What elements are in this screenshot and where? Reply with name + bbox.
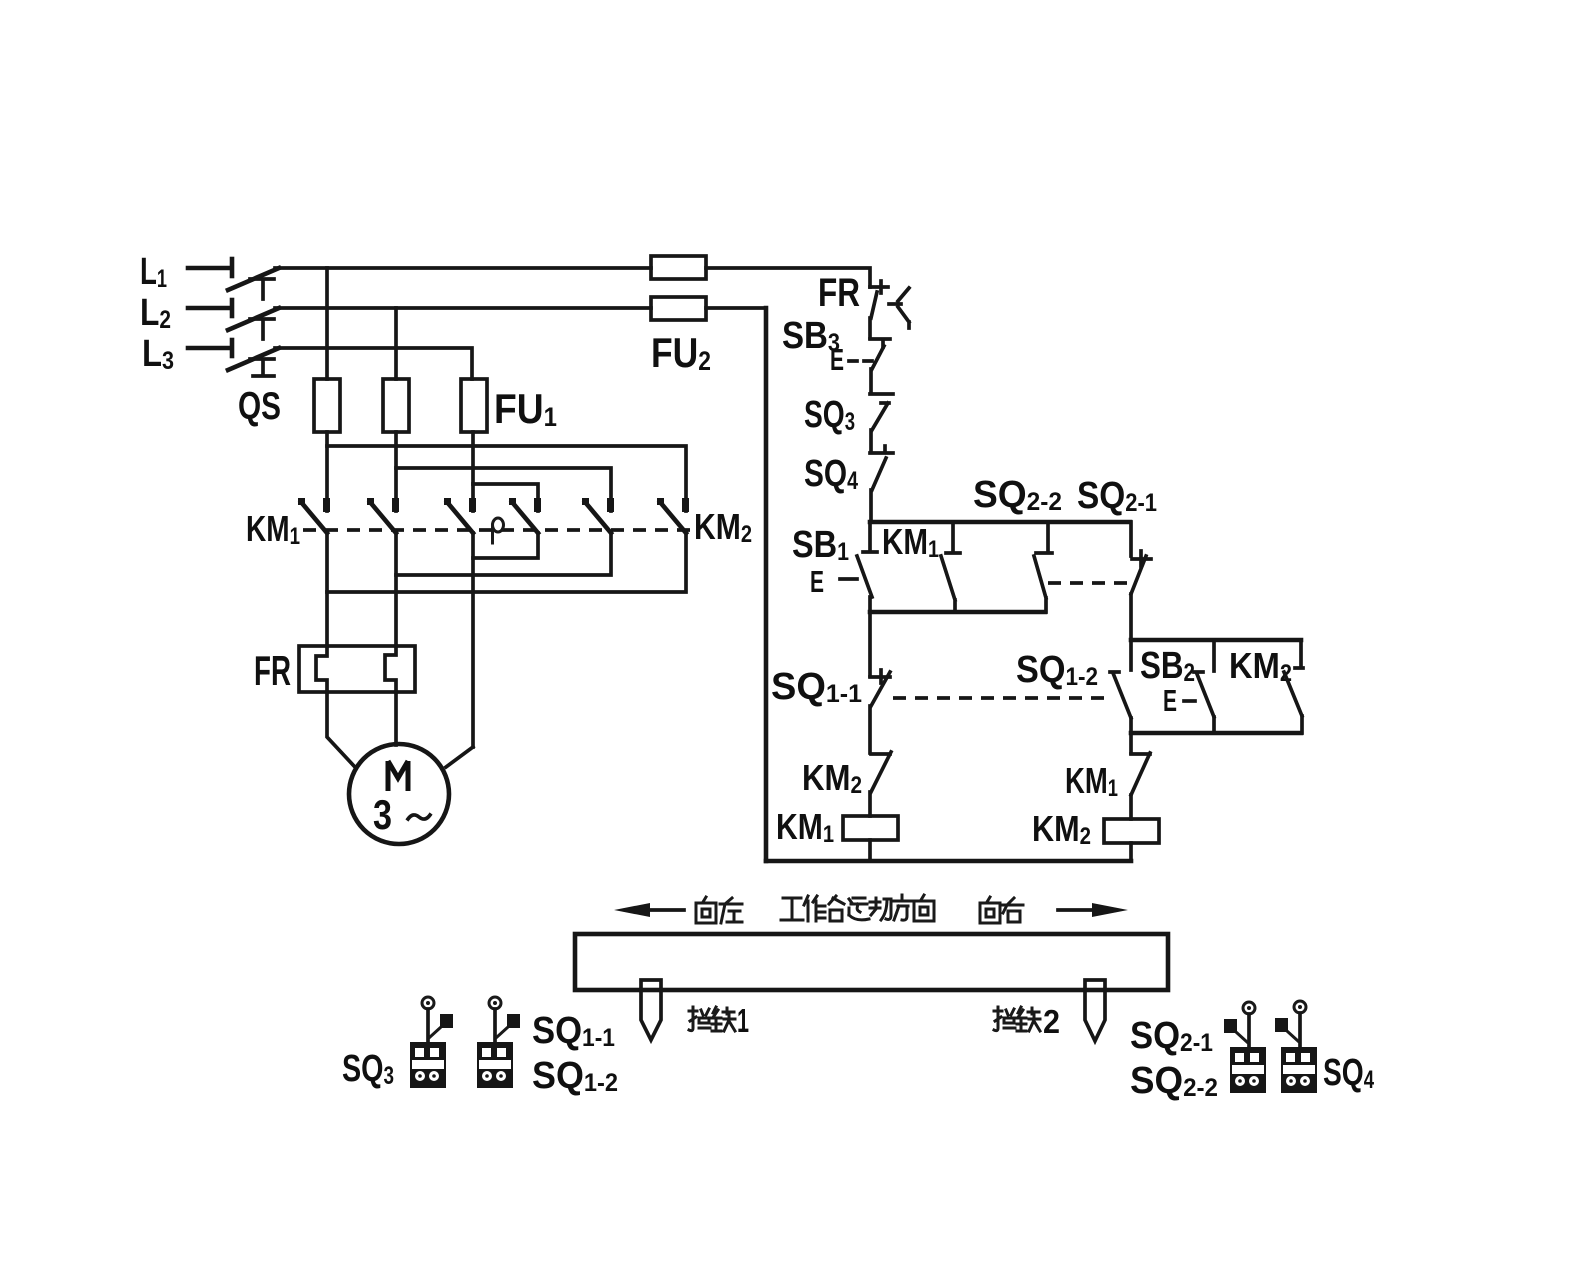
wire pole3 bottom down — [471, 533, 475, 747]
coil KM1 — [843, 816, 898, 840]
switch QS blade pole 2 — [228, 308, 279, 330]
wire phase C fuse to node C1 — [471, 432, 475, 511]
switch QS blade pole 3 — [228, 348, 279, 370]
text xiang-zuo (to left) — [696, 897, 742, 923]
wire L3 to fuse FU1c — [275, 348, 472, 379]
contact KM2 NC interlock — [871, 752, 891, 792]
wire SQ4 to node A — [869, 490, 873, 522]
limit switch icon SQ3 — [410, 997, 453, 1088]
wire pole1 bottom down — [325, 533, 329, 646]
wire pole2 bottom down — [394, 533, 398, 646]
wire phase B fuse to node B1 — [394, 432, 398, 511]
wire L2 lead-in — [188, 306, 231, 311]
svg-text:1: 1 — [737, 1002, 749, 1039]
wire phase B down to FU1 — [394, 308, 398, 379]
coil KM2 — [1104, 819, 1159, 843]
text worktable motion direction — [781, 895, 934, 921]
linkage mark p — [493, 518, 504, 543]
arrow to-left — [614, 903, 684, 917]
pushbutton SB3 NC — [870, 339, 890, 369]
QS linkage bar pole 2 — [250, 319, 274, 339]
pushbutton SB2 NO — [1194, 640, 1214, 733]
fuse FU1 element b — [383, 379, 409, 432]
limit switch SQ1-2 NO — [1110, 640, 1131, 733]
terminal tick L2 — [230, 300, 235, 316]
FR heater element phase B — [385, 646, 396, 692]
QS linkage bar pole 3 with handle — [250, 359, 274, 376]
wire L3 lead-in — [188, 346, 231, 351]
limit switch SQ2-1 NC — [1131, 522, 1151, 594]
wire L2 to FU2 — [275, 306, 651, 310]
terminal tick L3 — [230, 340, 235, 356]
limit switch icon SQ2 — [1224, 1002, 1266, 1093]
wire L1 to FU2 — [275, 266, 651, 270]
wire branch node A top — [870, 520, 1130, 525]
dog 2 (stop iron 2) — [1085, 980, 1105, 1041]
svg-text:E: E — [830, 342, 844, 377]
FR thermal NC contact — [870, 281, 909, 328]
wire phase A down to FU1 — [325, 268, 329, 379]
wire phase A fuse to node A1 — [325, 432, 329, 511]
wire FR to motor phase A — [327, 692, 354, 766]
wire KM2 interlock to coil KM1 — [868, 792, 872, 816]
wire coil KM1 to bottom rail — [868, 840, 872, 861]
KM1 main contact pole 2 — [367, 498, 399, 533]
linkage dash SB1 — [840, 577, 857, 581]
dog 1 (stop iron 1) — [641, 980, 661, 1040]
QS linkage bar pole 1 — [250, 279, 274, 299]
wire SB3 to SQ3 — [869, 369, 873, 393]
wire tie pole1-pole6 outputs — [327, 533, 686, 592]
wire tie pole2-pole5 outputs — [396, 533, 611, 575]
contact KM1 NC interlock right — [1131, 753, 1150, 795]
linkage dashes SQ1-1 to SQ1-2 — [893, 696, 1108, 700]
terminal tick L1 — [230, 259, 235, 276]
text xiang-you (to right) — [980, 897, 1023, 923]
wire bottom rail — [766, 859, 1131, 864]
motor M circle — [349, 744, 449, 844]
wire FR to SB3 — [868, 318, 872, 338]
switch QS blade pole 1 — [228, 268, 279, 290]
svg-text:E: E — [810, 564, 824, 599]
linkage dash SB2 — [1184, 699, 1195, 703]
arrow to-right — [1058, 903, 1128, 917]
contact KM2 selfhold NO — [1284, 640, 1303, 733]
wire crossover B to KM2 pole 5 — [396, 468, 611, 511]
fuse FU2 element 1 — [651, 256, 706, 279]
fuse FU2 element 2 — [651, 297, 706, 320]
svg-text:E: E — [1163, 683, 1177, 718]
wire branch node B lower — [870, 610, 1045, 615]
svg-text:FR: FR — [818, 271, 860, 315]
wire L1 lead-in — [188, 266, 231, 271]
fuse FU1 element c — [461, 379, 487, 432]
FR heater element phase A — [316, 646, 327, 692]
wire crossover C to KM2 pole 4 — [473, 484, 538, 511]
KM2 main contact pole 5 — [582, 498, 614, 533]
wire crossover A to KM2 pole 6 — [327, 446, 686, 511]
KM2 main contact pole 6 — [657, 498, 689, 533]
parallel box top line — [1131, 638, 1301, 643]
KM1 main contact pole 3 — [444, 498, 476, 533]
wire KM1 interlock to coil KM2 — [1129, 795, 1133, 819]
limit switch icon SQ1 — [477, 997, 520, 1088]
wire coil KM2 to bottom rail — [1129, 843, 1133, 861]
contact KM1 selfhold NO — [941, 523, 960, 612]
wire SQ3 to SQ4 — [869, 430, 873, 452]
KM2 main contact pole 4 — [509, 498, 541, 533]
worktable body — [575, 934, 1168, 990]
limit switch SQ1-1 NC — [870, 670, 890, 706]
limit switch SQ4 NC — [870, 446, 893, 490]
svg-text:3: 3 — [373, 791, 392, 838]
wire L2 phase to left rail corner — [706, 306, 766, 310]
linkage dash SB3 — [849, 359, 872, 363]
wire SB1 to SQ1-1 — [868, 597, 872, 676]
svg-text:QS: QS — [238, 385, 281, 428]
limit switch icon SQ4 — [1275, 1001, 1317, 1093]
wire to motor phase C — [446, 747, 473, 767]
KM1 main contact pole 1 — [298, 498, 330, 533]
wire L1 phase to control corner — [706, 268, 870, 287]
linkage dashes SQ2-2 to SQ2-1 — [1048, 581, 1130, 585]
wire box to KM1 interlock right — [1129, 733, 1133, 753]
svg-text:FR: FR — [254, 647, 291, 694]
motor label ~ — [408, 815, 430, 819]
parallel box bottom line — [1131, 731, 1301, 736]
wire FR to motor phase B — [394, 692, 398, 745]
pushbutton SB1 NO — [857, 522, 877, 597]
linkage dashes KM1-KM2 main — [303, 528, 692, 532]
motor letter M — [388, 761, 408, 791]
FR heater box — [299, 646, 415, 692]
text dang-tie 2 (stop iron 2) — [994, 1007, 1040, 1031]
limit switch SQ2-2 NO — [1034, 522, 1052, 612]
text dang-tie 1 (stop iron 1) — [689, 1007, 735, 1031]
limit switch SQ3 NC — [870, 394, 893, 430]
fuse FU1 element a — [314, 379, 340, 432]
wire left control rail — [764, 308, 769, 861]
wire SQ2-1 down to box — [1129, 594, 1133, 640]
svg-text:2: 2 — [1043, 1003, 1060, 1040]
wire SQ1-1 to KM2 interlock — [868, 706, 872, 753]
wire tie pole3-pole4 outputs — [473, 533, 538, 558]
